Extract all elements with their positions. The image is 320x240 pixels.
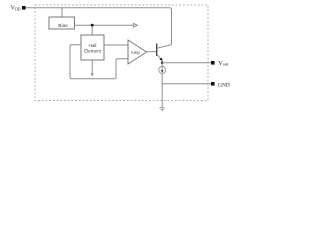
svg-text:Amp: Amp	[131, 50, 141, 55]
wire Vdd rail to collector riser	[26, 8, 172, 45]
wire hall left output wrap-around to amp inverting input	[70, 45, 128, 79]
wire GND	[162, 83, 211, 85]
terminal GND	[211, 82, 215, 86]
op-amp Amp	[128, 40, 147, 64]
svg-text:VDD: VDD	[11, 5, 21, 12]
svg-text:Hall: Hall	[89, 43, 97, 48]
wire Vout	[162, 62, 211, 64]
block Bias	[49, 17, 75, 29]
wire hall bottom drop	[91, 60, 93, 73]
ground symbol	[159, 108, 165, 111]
junction dot emitter Vout node	[161, 62, 163, 64]
wire amp output to transistor base	[147, 51, 157, 53]
block Hall Element	[81, 35, 104, 60]
svg-text:Element: Element	[84, 48, 102, 53]
wire bias drop	[61, 8, 63, 17]
transistor Q1 NPN output	[157, 44, 172, 61]
junction dot hall top	[91, 24, 94, 27]
svg-text:Vout: Vout	[218, 60, 229, 67]
wire hall right output to amp input	[104, 44, 128, 46]
wire hall top drop	[91, 25, 93, 35]
wire emitter down through current source to ground	[161, 60, 163, 107]
svg-text:GND: GND	[218, 82, 230, 88]
terminal Vdd	[22, 6, 26, 10]
terminal Vout	[211, 61, 215, 65]
dashed IC boundary box	[35, 5, 208, 101]
current source I1	[159, 66, 166, 73]
arrow bias output open arrowhead	[134, 24, 138, 28]
arrow hall ground connection	[91, 73, 94, 76]
svg-text:Bias: Bias	[58, 23, 68, 29]
wire bias output	[75, 24, 134, 26]
